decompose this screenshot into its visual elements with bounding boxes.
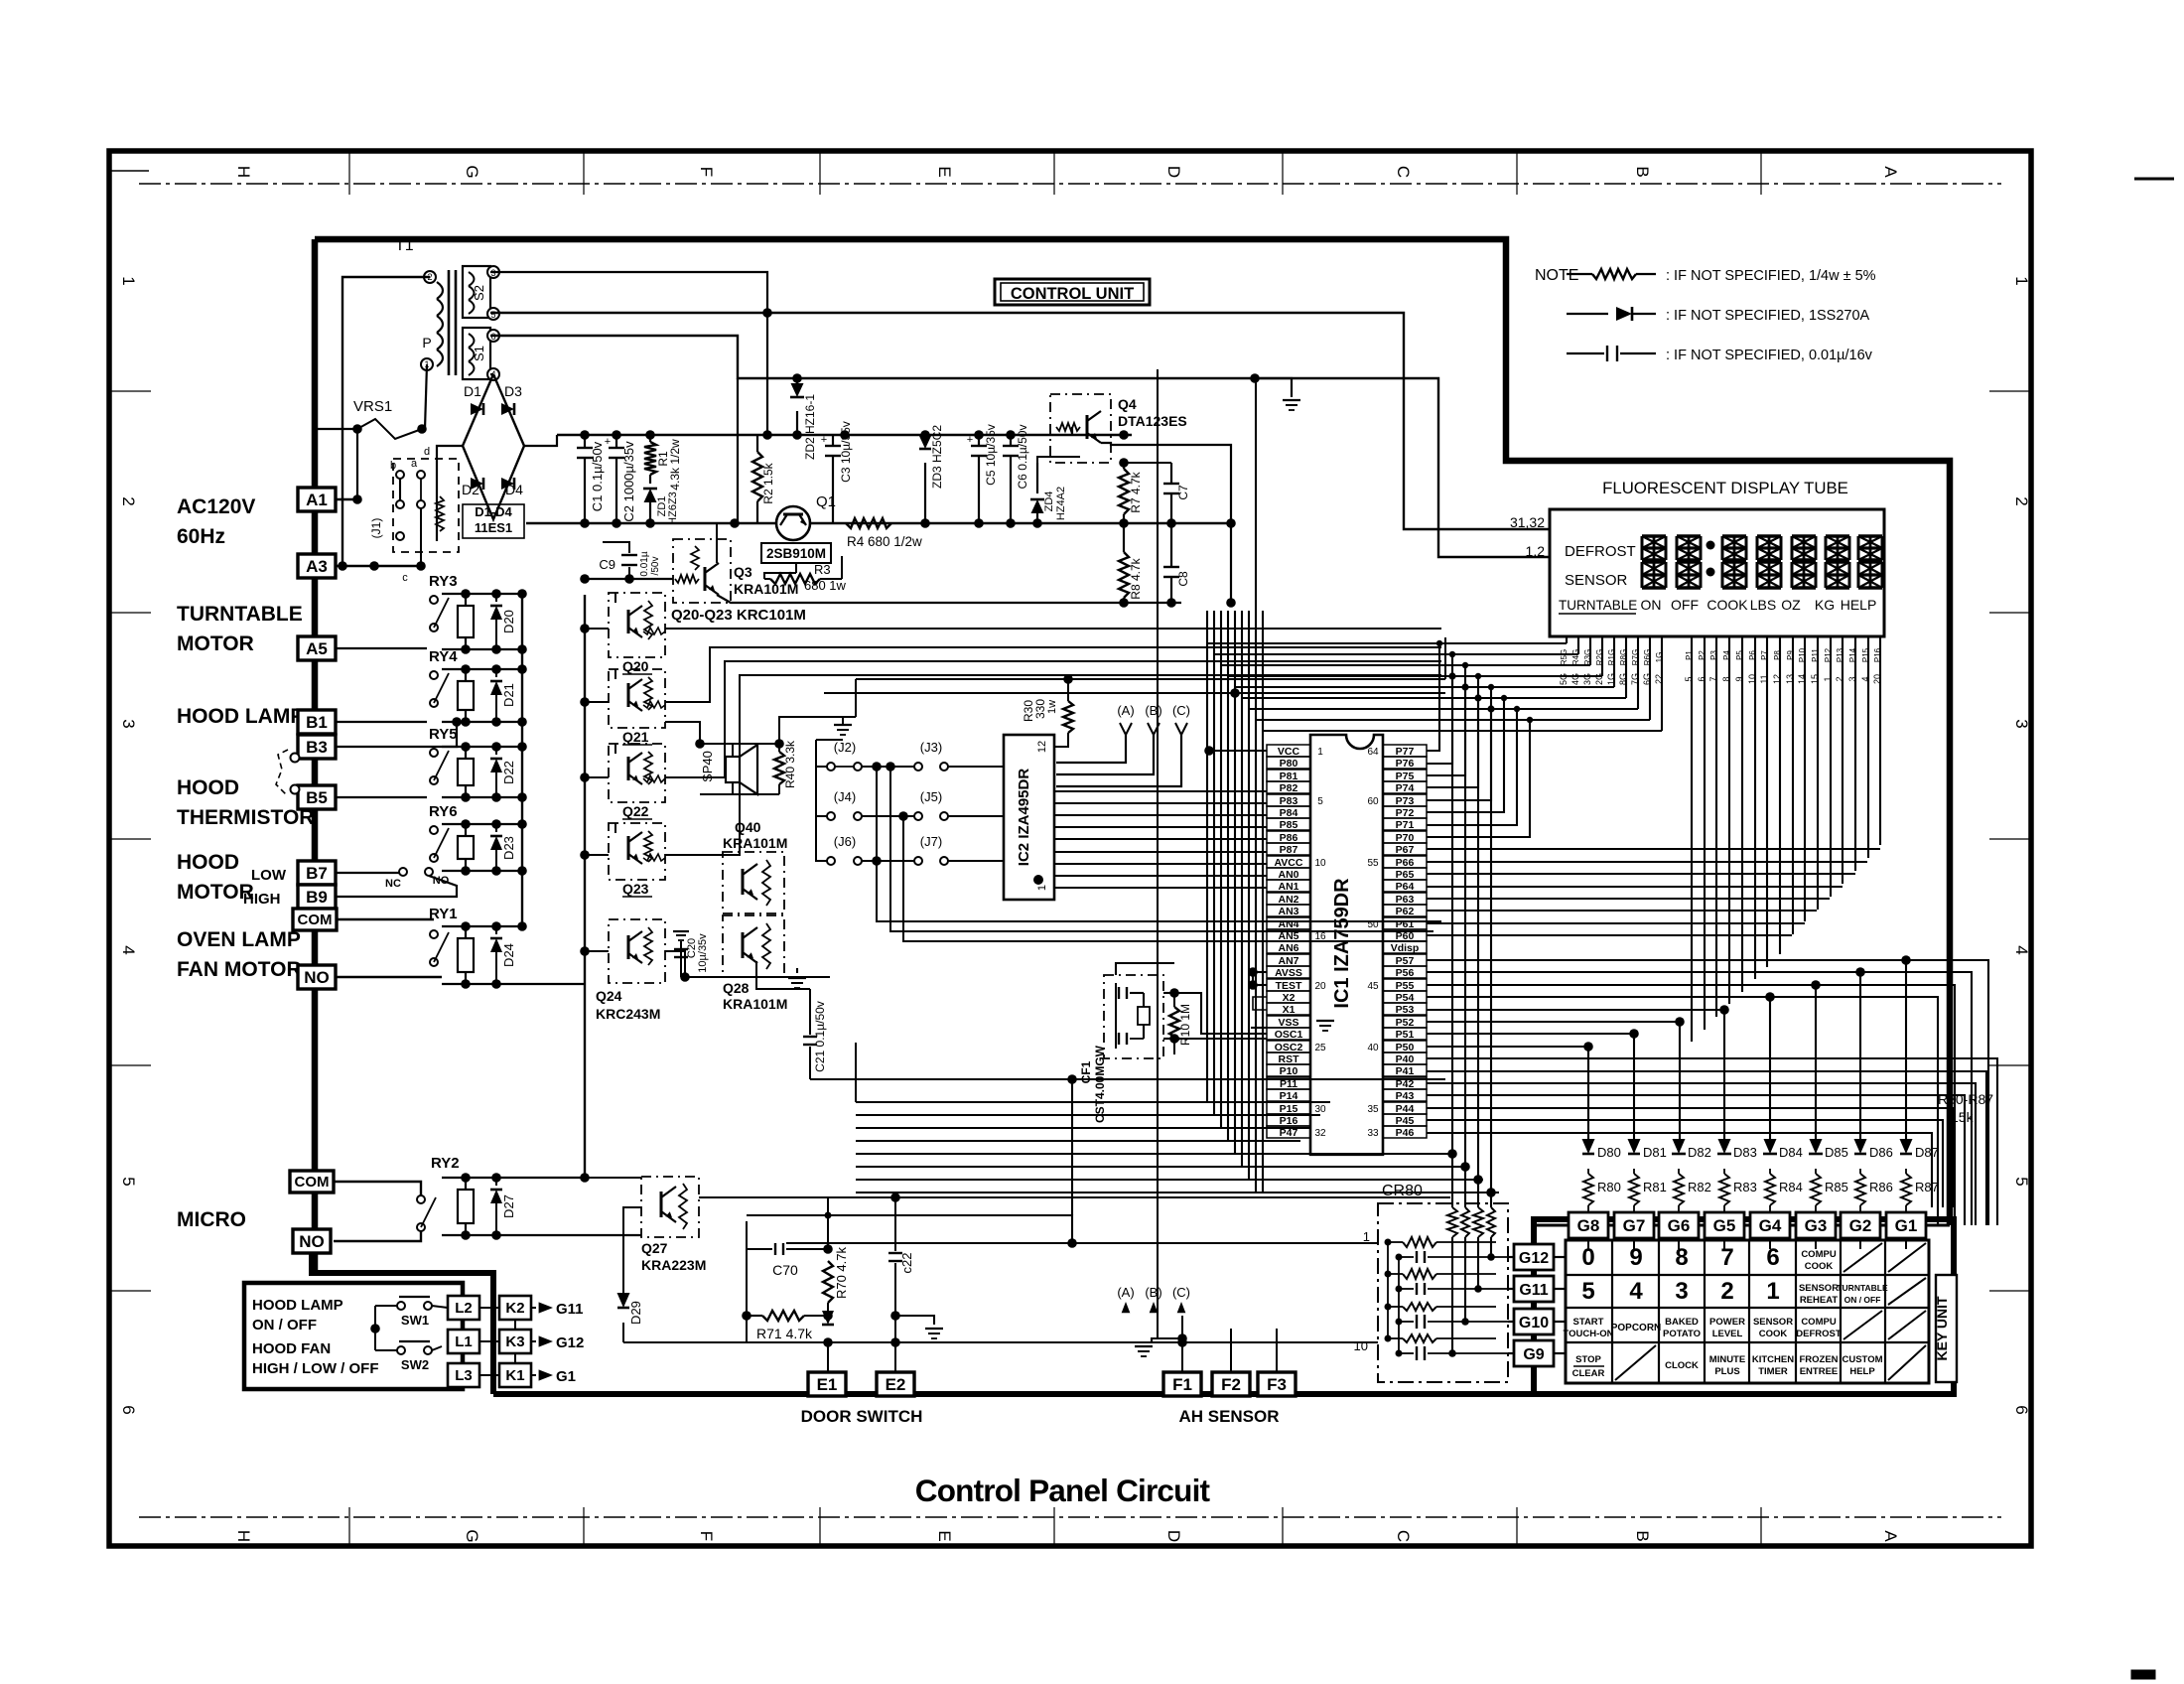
svg-text:P4: P4 (1722, 650, 1731, 660)
sensor A long vertical (1157, 369, 1159, 1338)
svg-text:330: 330 (1033, 699, 1047, 719)
transistor Q20 KRC101M cell (609, 593, 665, 657)
svg-text:G1: G1 (1895, 1216, 1918, 1235)
svg-text:TURNTABLE: TURNTABLE (1559, 598, 1637, 613)
resistor R80 (1583, 1174, 1593, 1205)
svg-text:R7 4.7k: R7 4.7k (1129, 471, 1143, 512)
svg-text:+: + (821, 434, 827, 446)
(A)(B)(C) wires to IC2 (1056, 735, 1126, 763)
svg-text:P43: P43 (1396, 1090, 1415, 1102)
svg-text:8: 8 (1675, 1244, 1688, 1271)
svg-text:POPCORN: POPCORN (1611, 1323, 1662, 1333)
svg-text:K3: K3 (505, 1333, 524, 1350)
svg-text:55: 55 (1367, 858, 1379, 869)
svg-text:G4: G4 (1759, 1216, 1782, 1235)
svg-text:C21 0.1µ/50v: C21 0.1µ/50v (813, 1001, 827, 1072)
svg-text:D24: D24 (501, 943, 516, 967)
svg-text:P76: P76 (1396, 758, 1415, 770)
svg-text:F: F (697, 167, 716, 177)
svg-text:1: 1 (1317, 747, 1323, 758)
svg-text:P11: P11 (1280, 1078, 1297, 1090)
diode D86 (1854, 1139, 1867, 1154)
wire primary top to left (342, 277, 430, 566)
svg-text:RY4: RY4 (429, 648, 458, 665)
svg-text:(J2): (J2) (834, 740, 856, 755)
bottom thick interconnect line to door switch and key unit (493, 1391, 808, 1397)
svg-text:AN4: AN4 (1278, 918, 1298, 930)
resistor R86 (1855, 1174, 1865, 1205)
terminal COM upper (293, 909, 337, 930)
svg-text:TEST: TEST (1276, 980, 1302, 992)
svg-text:HELP: HELP (1849, 1366, 1875, 1377)
svg-text:D87: D87 (1915, 1145, 1939, 1160)
capacitor C8 (1170, 523, 1172, 566)
svg-text:P65: P65 (1396, 869, 1415, 881)
svg-text:G7: G7 (1623, 1216, 1646, 1235)
transistor Q21 KRC101M cell (609, 669, 665, 728)
svg-text:Q23: Q23 (622, 881, 649, 897)
svg-text:20: 20 (1314, 981, 1326, 992)
wire A1 to switch block (335, 498, 357, 500)
svg-text:CUSTOM: CUSTOM (1843, 1354, 1883, 1365)
svg-text:AN3: AN3 (1278, 906, 1298, 917)
wire COM to RY1 switch (337, 918, 434, 920)
svg-text:C1 0.1µ/50v: C1 0.1µ/50v (590, 441, 605, 511)
svg-text:E2: E2 (886, 1375, 906, 1394)
frame inner dash-dot margin lines (139, 183, 2001, 185)
svg-text:Q24: Q24 (596, 988, 622, 1004)
svg-text:DEFROST: DEFROST (1796, 1329, 1842, 1339)
svg-text:BAKED: BAKED (1665, 1317, 1699, 1328)
svg-text:R80-R87: R80-R87 (1938, 1091, 1993, 1107)
transistor Q22 KRC101M cell (609, 744, 665, 802)
svg-text:(J7): (J7) (920, 834, 942, 849)
svg-text:KRC243M: KRC243M (596, 1006, 660, 1022)
wire NO lower to RY2 (334, 1231, 421, 1241)
wires relay rows to Q cells (585, 628, 609, 630)
svg-text:P54: P54 (1396, 992, 1415, 1004)
svg-text:3: 3 (119, 719, 138, 728)
control unit thick outline top and right (315, 239, 1950, 1225)
svg-text:D1-D4: D1-D4 (475, 504, 512, 519)
svg-text:COOK: COOK (1759, 1329, 1788, 1339)
svg-text:G: G (463, 1529, 481, 1542)
control unit thick outline left rail (312, 239, 319, 1273)
svg-text:Control Panel Circuit: Control Panel Circuit (915, 1473, 1211, 1508)
svg-text:P82: P82 (1280, 782, 1298, 794)
svg-text:OSC1: OSC1 (1275, 1029, 1303, 1041)
svg-text:P15: P15 (1861, 647, 1870, 662)
svg-text:KEY UNIT: KEY UNIT (1934, 1296, 1950, 1361)
capacitor C3 polarized (832, 435, 834, 445)
svg-text:ON / OFF: ON / OFF (252, 1317, 317, 1333)
zener ZD2 (796, 378, 798, 393)
svg-text:G3: G3 (1805, 1216, 1828, 1235)
svg-text:2: 2 (119, 496, 138, 505)
svg-text:CF1: CF1 (1079, 1060, 1093, 1083)
terminal B9 (298, 885, 336, 909)
svg-text:C2 1000µ/35v: C2 1000µ/35v (621, 441, 636, 522)
driver bus vertical (584, 595, 586, 1178)
terminal A3 (298, 554, 336, 578)
resistor R82 (1674, 1174, 1684, 1205)
svg-text:FLUORESCENT DISPLAY TUBE: FLUORESCENT DISPLAY TUBE (1602, 479, 1848, 497)
svg-text:B5: B5 (306, 788, 328, 807)
svg-text:HZ4A2: HZ4A2 (1055, 487, 1067, 520)
svg-text:4: 4 (119, 945, 138, 954)
diode D85 (1810, 1139, 1823, 1154)
svg-text:F1: F1 (1172, 1375, 1192, 1394)
svg-text:P52: P52 (1396, 1017, 1415, 1029)
svg-text:(C): (C) (1172, 703, 1190, 718)
svg-text:SW2: SW2 (401, 1357, 429, 1372)
svg-text:60Hz: 60Hz (177, 525, 225, 548)
svg-text:COM: COM (295, 1174, 330, 1191)
svg-text:Q27: Q27 (641, 1240, 668, 1256)
svg-text:CLOCK: CLOCK (1665, 1360, 1699, 1371)
svg-text:SENSOR: SENSOR (1565, 572, 1628, 589)
AH sensor arrows (1122, 1302, 1131, 1313)
svg-text:D22: D22 (501, 761, 516, 784)
svg-text:OVEN LAMP: OVEN LAMP (177, 928, 301, 951)
svg-text:11: 11 (1759, 674, 1769, 683)
capacitor C21 (809, 989, 811, 1035)
svg-text:33: 33 (1367, 1128, 1379, 1139)
svg-text:7: 7 (1708, 676, 1718, 681)
svg-text:25: 25 (1314, 1043, 1326, 1053)
gate terminal G5 (1705, 1212, 1744, 1238)
svg-text:G: G (463, 165, 481, 178)
svg-text:P83: P83 (1280, 795, 1298, 807)
svg-text:P86: P86 (1280, 832, 1298, 844)
ground at VSS (1251, 1027, 1267, 1029)
IC1 right pin boxes (1383, 745, 1427, 757)
jumper block left rail (816, 763, 827, 861)
resistor R10 1M (1173, 993, 1175, 1007)
grid terminal G12 (1514, 1244, 1554, 1270)
wire A5 RY3switch (336, 647, 427, 649)
svg-text:D20: D20 (501, 610, 516, 633)
display tube box (1550, 509, 1884, 636)
relay bus vertical (521, 594, 523, 926)
svg-text:Q20-Q23 KRC101M: Q20-Q23 KRC101M (671, 607, 806, 624)
svg-text:1: 1 (119, 276, 138, 285)
grid terminal G10 (1514, 1309, 1554, 1334)
key matrix diagonal blank cells (1843, 1243, 1882, 1272)
svg-text:P10: P10 (1280, 1065, 1298, 1077)
svg-text:VRS1: VRS1 (353, 398, 392, 415)
IC2 output wires to IC1 (1054, 790, 1267, 792)
svg-text:5: 5 (1317, 796, 1323, 807)
svg-text:D84: D84 (1779, 1145, 1803, 1160)
svg-text:(J1): (J1) (369, 518, 383, 539)
svg-text:P2: P2 (1698, 650, 1706, 660)
svg-text:D4: D4 (505, 482, 523, 497)
ground near C21 (788, 977, 806, 979)
svg-text:B3: B3 (306, 738, 328, 757)
svg-text:R4 680 1/2w: R4 680 1/2w (847, 534, 922, 549)
svg-text:THERMISTOR: THERMISTOR (177, 806, 314, 829)
svg-text:IC2 IZA495DR: IC2 IZA495DR (1016, 769, 1032, 867)
capacitor c22 (894, 1197, 896, 1251)
wire S2 top tap (490, 272, 767, 435)
CF1 wires to IC1 OSC pins (1116, 963, 1174, 975)
svg-text:b: b (390, 460, 396, 472)
transistor Q28 KRA101M (723, 915, 784, 977)
transformer pin circles (424, 271, 436, 283)
svg-text:a: a (411, 458, 418, 470)
svg-text:HIGH / LOW / OFF: HIGH / LOW / OFF (252, 1360, 379, 1377)
display tube pin wires right group (1691, 636, 1693, 1042)
gate terminal G3 (1796, 1212, 1836, 1238)
svg-text:DTA123ES: DTA123ES (1118, 413, 1187, 429)
svg-text:Q3: Q3 (734, 564, 752, 580)
svg-text:HELP: HELP (1841, 597, 1877, 613)
svg-text:12: 12 (1036, 741, 1048, 753)
svg-text:DOOR SWITCH: DOOR SWITCH (801, 1407, 923, 1426)
svg-text:G11: G11 (1519, 1282, 1548, 1299)
svg-text:MINUTE: MINUTE (1709, 1354, 1745, 1365)
svg-text:C8: C8 (1176, 571, 1190, 587)
svg-text:LBS: LBS (1750, 597, 1776, 613)
resistor R3 (795, 563, 797, 573)
resistor R81 (1629, 1174, 1639, 1205)
svg-text:1: 1 (2012, 276, 2031, 285)
svg-text:E1: E1 (817, 1375, 838, 1394)
resistor R2 (756, 435, 758, 452)
svg-text:P73: P73 (1396, 795, 1415, 807)
horizontal band under IC1 (856, 1101, 1330, 1103)
svg-text:0: 0 (1581, 1244, 1594, 1271)
svg-text:K2: K2 (505, 1300, 524, 1317)
svg-text:P77: P77 (1396, 746, 1415, 758)
ceramic resonator CF1 CST4.00MGW (1104, 975, 1163, 1058)
resistor R87 (1901, 1174, 1911, 1205)
bundle IC1 right pins P57-P50 rows with key column drops (1427, 959, 1906, 961)
svg-text:22: 22 (1654, 674, 1664, 684)
svg-text:KRA101M: KRA101M (723, 996, 787, 1012)
svg-text:G8: G8 (1577, 1216, 1600, 1235)
transistor Q1 2SB910M (776, 506, 810, 540)
svg-text:R80: R80 (1597, 1180, 1621, 1194)
svg-text:R2 1.5k: R2 1.5k (761, 462, 775, 503)
svg-text:(B): (B) (1145, 703, 1161, 718)
svg-text:5: 5 (119, 1177, 138, 1186)
svg-text:T1: T1 (395, 237, 414, 254)
svg-text:P53: P53 (1396, 1004, 1415, 1016)
grid terminal G11 (1514, 1276, 1554, 1302)
ground near F1 (1152, 1338, 1182, 1342)
svg-text:Q4: Q4 (1118, 396, 1137, 412)
ground at top of IC area (1250, 373, 1260, 383)
svg-text:P14: P14 (1280, 1090, 1298, 1102)
wire B5 RY5switch (336, 796, 427, 798)
svg-text:SW1: SW1 (401, 1313, 429, 1328)
svg-text:AN7: AN7 (1278, 955, 1298, 967)
gate bus wire (1534, 1224, 1950, 1227)
hood switch box (244, 1283, 463, 1389)
svg-text:5: 5 (1581, 1278, 1594, 1305)
bridge rectifier D1-D4 (463, 374, 524, 519)
svg-text:6: 6 (2012, 1405, 2031, 1414)
svg-text:POTATO: POTATO (1663, 1329, 1701, 1339)
transistor Q4 DTA123ES (1050, 394, 1111, 463)
svg-text:2: 2 (2012, 496, 2031, 505)
AH sensor terminals F1 F2 F3 (1163, 1372, 1201, 1396)
zener ZD3 (924, 435, 926, 442)
svg-text:(J3): (J3) (920, 740, 942, 755)
svg-text:CLEAR: CLEAR (1572, 1368, 1605, 1379)
svg-text:OZ: OZ (1781, 597, 1801, 613)
svg-text:2G: 2G (1594, 673, 1604, 685)
svg-text:R71 4.7k: R71 4.7k (756, 1326, 813, 1341)
svg-text:60: 60 (1367, 796, 1379, 807)
wire NO to Q24 (585, 950, 609, 952)
bundle IC1 upper right pins to tube left group staircase (1427, 643, 1439, 751)
svg-text:COMPU: COMPU (1801, 1249, 1837, 1260)
svg-text:KG: KG (1815, 597, 1835, 613)
svg-text:P50: P50 (1396, 1042, 1415, 1053)
svg-text:P42: P42 (1396, 1078, 1415, 1090)
svg-text:C7: C7 (1176, 485, 1190, 500)
svg-text:9: 9 (1629, 1244, 1642, 1271)
svg-text:(J4): (J4) (834, 789, 856, 804)
svg-text:RY3: RY3 (429, 573, 458, 590)
svg-text:P40: P40 (1396, 1053, 1415, 1065)
svg-text:G6: G6 (1668, 1216, 1691, 1235)
svg-text:D86: D86 (1869, 1145, 1893, 1160)
svg-text:TURNTABLE: TURNTABLE (1837, 1283, 1888, 1293)
svg-text:R5G: R5G (1560, 649, 1569, 665)
svg-text:S2: S2 (472, 285, 486, 301)
wire speaker top (700, 743, 733, 745)
transistor Q3 KRA101M (673, 539, 731, 603)
terminal COM lower (290, 1171, 334, 1193)
svg-text:HOOD: HOOD (177, 851, 239, 874)
svg-text:ON / OFF: ON / OFF (1844, 1295, 1881, 1305)
svg-text:A1: A1 (306, 491, 328, 509)
svg-text:LEVEL: LEVEL (1712, 1329, 1743, 1339)
svg-text:G12: G12 (556, 1334, 584, 1351)
svg-text:(J5): (J5) (920, 789, 942, 804)
door switch terminal E2 (877, 1372, 914, 1396)
svg-text:TURNTABLE: TURNTABLE (177, 603, 303, 626)
svg-text:TIMER: TIMER (1758, 1366, 1788, 1377)
svg-text:6: 6 (1766, 1244, 1779, 1271)
svg-text:45: 45 (1367, 981, 1379, 992)
svg-text:ZD2 HZ16-1: ZD2 HZ16-1 (803, 394, 817, 460)
svg-text:R83: R83 (1733, 1180, 1757, 1194)
svg-text:R40 3.3k: R40 3.3k (783, 740, 797, 788)
lower rail (580, 430, 590, 440)
svg-text:1G: 1G (1655, 652, 1664, 663)
CR80 top feed verticals (1451, 676, 1453, 1207)
G11 G12 G1 output arrows (539, 1302, 553, 1313)
svg-text:R4G: R4G (1571, 649, 1580, 665)
svg-text:D21: D21 (501, 683, 516, 707)
svg-text:C6 0.1µ/50v: C6 0.1µ/50v (1016, 425, 1029, 490)
svg-text:H: H (234, 166, 253, 178)
svg-text:COMPU: COMPU (1801, 1317, 1837, 1328)
svg-text:HOOD: HOOD (177, 776, 239, 799)
svg-text:VCC: VCC (1278, 746, 1300, 758)
transistor Q23 KRC101M cell (609, 823, 665, 880)
svg-text:R3G: R3G (1583, 649, 1592, 665)
svg-text:/50v: /50v (650, 557, 661, 576)
svg-text:8G: 8G (1618, 673, 1628, 685)
svg-text:R70 4.7k: R70 4.7k (834, 1246, 849, 1299)
svg-text:15k: 15k (1951, 1109, 1975, 1125)
svg-text:ON: ON (1641, 597, 1662, 613)
svg-text:P12: P12 (1824, 647, 1833, 662)
svg-text:AH SENSOR: AH SENSOR (1178, 1407, 1279, 1426)
svg-text:2SB910M: 2SB910M (766, 546, 826, 561)
svg-text:+: + (605, 436, 611, 448)
svg-text:KRA101M: KRA101M (723, 835, 787, 851)
svg-text:D81: D81 (1643, 1145, 1667, 1160)
svg-text:SENSOR: SENSOR (1799, 1283, 1839, 1294)
svg-text:P66: P66 (1396, 857, 1415, 869)
svg-text:R7G: R7G (1631, 649, 1640, 665)
svg-text:P3: P3 (1709, 650, 1718, 660)
resistor R40 3.3k (778, 744, 780, 752)
svg-text:B: B (1633, 1530, 1652, 1541)
svg-text:P60: P60 (1396, 930, 1415, 942)
svg-text:9: 9 (1734, 676, 1744, 681)
mid rail (regulated) (526, 522, 1231, 524)
svg-text:P11: P11 (1811, 648, 1820, 662)
svg-text:P51: P51 (1396, 1029, 1415, 1041)
svg-text:P7: P7 (1760, 650, 1769, 660)
svg-text:D3: D3 (504, 383, 522, 399)
svg-text:: IF NOT SPECIFIED, 1/4w ± 5%: : IF NOT SPECIFIED, 1/4w ± 5% (1666, 268, 1876, 284)
wire B1 RY4switch (336, 721, 427, 723)
jumper outputs down (877, 767, 1441, 921)
svg-text:AVSS: AVSS (1275, 967, 1302, 979)
svg-text:RY2: RY2 (431, 1155, 460, 1172)
svg-text:SP40: SP40 (700, 751, 715, 782)
svg-text:1: 1 (1766, 1278, 1779, 1305)
svg-text:(C): (C) (1172, 1285, 1190, 1300)
svg-text:C70: C70 (772, 1262, 798, 1278)
wire C21 to nest row (810, 1078, 1445, 1080)
resistor R71 4.7k (762, 1311, 804, 1321)
svg-text:LOW: LOW (251, 867, 287, 884)
svg-text:IC1 IZA759DR: IC1 IZA759DR (1331, 878, 1353, 1009)
bridge right output to VCC rail (524, 435, 557, 446)
gate terminal G2 (1841, 1212, 1880, 1238)
svg-text:10: 10 (1747, 674, 1757, 684)
svg-text:R6G: R6G (1643, 649, 1652, 665)
svg-text:4: 4 (2012, 945, 2031, 954)
wire Q27 collector row (699, 1196, 1450, 1198)
svg-text:A5: A5 (306, 639, 328, 658)
svg-text:30: 30 (1314, 1104, 1326, 1115)
diode D80 (1582, 1139, 1595, 1154)
svg-text:AC120V: AC120V (177, 495, 255, 518)
svg-text:5: 5 (2012, 1177, 2031, 1186)
svg-text:HIGH: HIGH (243, 891, 281, 908)
svg-text:P87: P87 (1280, 844, 1298, 856)
svg-text:10: 10 (1314, 858, 1326, 869)
wire Q28 emitter down (756, 961, 810, 989)
svg-text:10: 10 (1354, 1338, 1368, 1353)
svg-text:C5 10µ/35v: C5 10µ/35v (984, 424, 998, 486)
svg-text:P13: P13 (1836, 647, 1844, 662)
svg-text:P72: P72 (1396, 807, 1415, 819)
VCC rail (557, 434, 1132, 436)
svg-text:Q20: Q20 (622, 658, 649, 674)
